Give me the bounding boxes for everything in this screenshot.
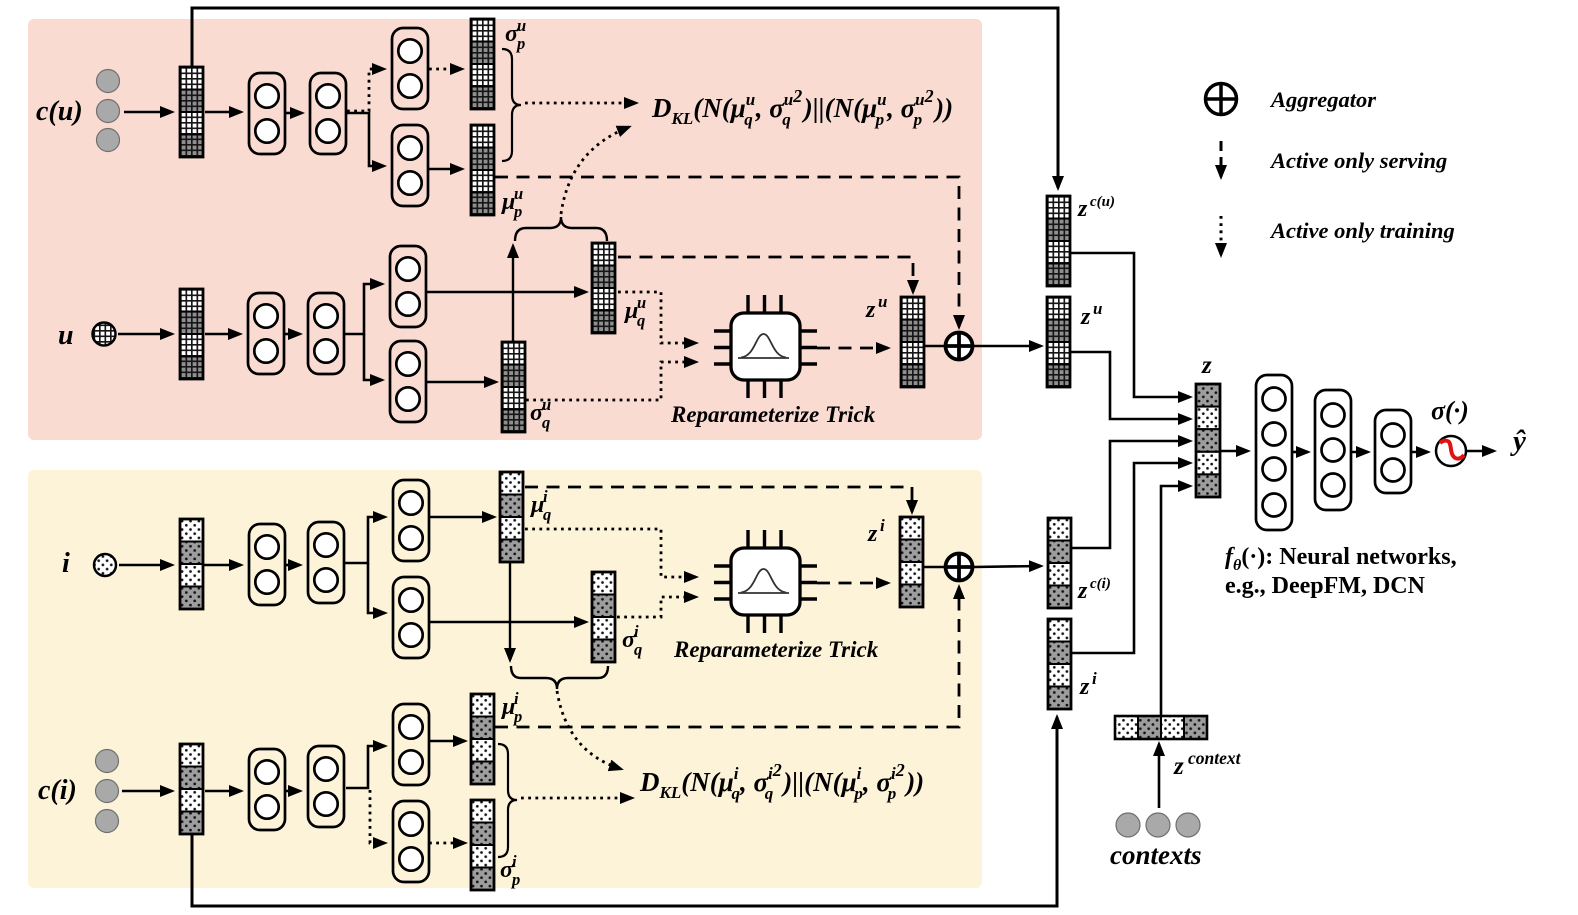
wire u to embedding bbox=[118, 333, 172, 336]
svg-text:z: z bbox=[1173, 753, 1184, 780]
svg-text:p: p bbox=[510, 870, 520, 889]
column sigma_p^u bbox=[471, 19, 494, 109]
wire bbox=[204, 564, 241, 567]
svg-text:Reparameterize Trick: Reparameterize Trick bbox=[673, 637, 879, 662]
column mu_q^u bbox=[592, 243, 615, 333]
item (yellow) region background bbox=[28, 470, 982, 888]
svg-text:i: i bbox=[62, 548, 70, 579]
wire: c(i) embedding bottom to z^i column (serving path) bbox=[192, 717, 1057, 906]
MLP layer box (i #1) bbox=[249, 524, 285, 605]
input contexts circles bbox=[1116, 813, 1140, 837]
svg-text:Reparameterize Trick: Reparameterize Trick bbox=[670, 402, 876, 427]
dashed wire mu_q^u to z^u column (serving) bbox=[618, 257, 913, 292]
wire bbox=[285, 333, 300, 336]
MLP layer box (u #2) bbox=[308, 293, 344, 374]
column sigma_q^i bbox=[592, 572, 615, 662]
wire z^i to z bbox=[1071, 463, 1190, 653]
svg-text:q: q bbox=[637, 311, 645, 330]
wire bbox=[368, 563, 385, 613]
svg-text:u: u bbox=[514, 184, 523, 203]
dotted wire brace to D_KL (user) bbox=[525, 102, 636, 105]
wire sigma head to sigma_q^i column bbox=[429, 621, 586, 624]
input c(i) feature circles bbox=[96, 750, 119, 773]
neural network layer 1 (4 neurons) bbox=[1256, 375, 1292, 530]
dotted wire split to prior sigma head (c(i), training) bbox=[370, 790, 385, 843]
wire split to posterior heads (u) bbox=[345, 284, 382, 334]
embedding column for c(u) bbox=[180, 67, 203, 157]
neural network layer 3 (2 neurons) bbox=[1375, 410, 1411, 493]
dashed wire mu_p^u to user aggregator (serving) bbox=[495, 177, 959, 327]
posterior sigma head box (user) bbox=[390, 341, 426, 422]
column z^u (right) bbox=[1047, 297, 1070, 387]
wire split to prior sigma head (dotted, training) bbox=[347, 69, 384, 111]
aggregator oplus (item) bbox=[946, 554, 973, 581]
wire mu head to mu_q^i column bbox=[429, 516, 494, 519]
wire c(i) to embedding bbox=[122, 790, 172, 793]
neural network layer 2 (3 neurons) bbox=[1315, 390, 1351, 510]
wire c(u) to embedding bbox=[124, 111, 172, 114]
dotted wire sigma_q^u to reparameterize chip (training) bbox=[526, 362, 696, 400]
svg-text:c(u): c(u) bbox=[1090, 194, 1115, 210]
input u hatched circle bbox=[93, 323, 116, 346]
MLP layer box (i #2) bbox=[308, 522, 344, 603]
brace joining mu_p^i and sigma_p^i bbox=[498, 744, 517, 857]
posterior mu head box (user) bbox=[390, 246, 426, 327]
svg-text:u: u bbox=[637, 293, 646, 312]
prior sigma head box (user) bbox=[392, 28, 428, 109]
wire z to neural network bbox=[1220, 450, 1248, 453]
dotted wire sigma_q^i to reparameterize chip (training) bbox=[617, 597, 696, 617]
wire z^u to user aggregator bbox=[924, 345, 946, 348]
wire bbox=[205, 333, 240, 336]
legend dotted arrow (training) bbox=[1220, 216, 1223, 255]
wire split to prior mu head bbox=[347, 113, 384, 166]
aggregator oplus (user) bbox=[946, 333, 973, 360]
prior sigma head box (item) bbox=[393, 801, 429, 882]
embedding column for u bbox=[180, 289, 203, 379]
svg-text:q: q bbox=[634, 640, 642, 659]
column z^c(u) bbox=[1047, 196, 1070, 286]
wire bbox=[1351, 451, 1368, 454]
wire sigmoid to prediction bbox=[1466, 450, 1494, 453]
svg-text:Active only training: Active only training bbox=[1269, 218, 1455, 243]
svg-text:i: i bbox=[880, 516, 885, 535]
column z^u (mid) bbox=[901, 297, 924, 387]
svg-text:q: q bbox=[543, 505, 551, 524]
dotted curve brace to D_KL (item) bbox=[557, 691, 621, 769]
column mu_q^i bbox=[500, 472, 523, 562]
svg-text:p: p bbox=[515, 34, 525, 53]
user (pink) region background bbox=[28, 19, 982, 440]
svg-text:z: z bbox=[865, 297, 876, 323]
sigmoid activation node bbox=[1436, 436, 1466, 466]
svg-text:p: p bbox=[512, 202, 522, 221]
svg-text:u: u bbox=[878, 292, 887, 311]
wire bbox=[1411, 451, 1428, 454]
svg-text:z: z bbox=[1079, 674, 1090, 700]
svg-text:u: u bbox=[517, 16, 526, 35]
brace joining sigma_p^u and mu_p^u bbox=[502, 49, 521, 161]
column sigma_q^u bbox=[502, 342, 525, 432]
input c(u) feature circles bbox=[97, 70, 120, 93]
svg-text:u: u bbox=[542, 395, 551, 414]
svg-text:i: i bbox=[512, 852, 517, 871]
wire z^i to item aggregator bbox=[923, 566, 946, 569]
column sigma_p^i bbox=[471, 800, 494, 890]
prior mu head box (user) bbox=[392, 125, 428, 206]
dashed wire mu_p^i to item aggregator (serving) bbox=[495, 587, 959, 727]
wire to mu_p^u column bbox=[429, 168, 462, 171]
svg-text:context: context bbox=[1188, 748, 1242, 768]
wire sigma head to sigma_q^u column bbox=[426, 381, 496, 384]
MLP layer box (c(i) #2) bbox=[308, 746, 344, 827]
legend aggregator symbol bbox=[1206, 84, 1237, 115]
svg-text:i: i bbox=[514, 689, 519, 708]
dotted wire mu_q^u to reparameterize chip (training) bbox=[618, 292, 696, 343]
brace over mu_q^u and sigma_q^u bbox=[515, 217, 607, 241]
reparameterize trick chip (item) bbox=[714, 530, 817, 633]
svg-text:Active only serving: Active only serving bbox=[1269, 148, 1447, 173]
embedding column for i bbox=[180, 519, 203, 609]
wire split to prior mu head (c(i)) bbox=[346, 746, 385, 788]
column z^i (right) bbox=[1048, 619, 1071, 709]
MLP layer box (c(u) #2) bbox=[310, 73, 346, 154]
wire z^u to z bbox=[1070, 352, 1190, 419]
svg-text:c(i): c(i) bbox=[38, 775, 77, 806]
svg-text:σ(·): σ(·) bbox=[1431, 396, 1469, 425]
column z^c(i) bbox=[1048, 518, 1071, 608]
dashed wire chip to z^i (item) bbox=[817, 582, 888, 585]
MLP layer box (c(i) #1) bbox=[249, 749, 285, 830]
wire bbox=[286, 790, 300, 793]
wire to mu_p^i column bbox=[429, 740, 465, 743]
svg-text:z: z bbox=[1080, 304, 1091, 330]
svg-text:i: i bbox=[1092, 669, 1097, 688]
wire z^c(i) to z bbox=[1071, 441, 1190, 548]
svg-text:i: i bbox=[634, 622, 639, 641]
svg-text:p: p bbox=[512, 707, 522, 726]
wire mu head to mu_q^u column bbox=[426, 291, 586, 294]
wire user aggregator to z^u column (right) bbox=[974, 345, 1041, 348]
wire embedding to MLP layer 1 bbox=[205, 111, 241, 114]
svg-text:u: u bbox=[1093, 299, 1102, 318]
svg-text:c(i): c(i) bbox=[1090, 576, 1111, 592]
wire sigma_q^u up to KL brace bbox=[512, 246, 514, 342]
svg-text:ŷ: ŷ bbox=[1510, 425, 1526, 457]
column mu_p^u bbox=[471, 125, 494, 215]
dashed wire mu_q^i to z^i column (serving) bbox=[525, 487, 912, 512]
svg-text:contexts: contexts bbox=[1110, 840, 1202, 870]
wire bbox=[205, 790, 241, 793]
brace under mu_q^i and sigma_q^i bbox=[511, 666, 608, 689]
posterior sigma head box (item) bbox=[393, 577, 429, 658]
dashed wire chip to z^u (user) bbox=[817, 347, 888, 350]
svg-text:z: z bbox=[1201, 352, 1212, 379]
svg-text:q: q bbox=[542, 413, 550, 432]
svg-text:e.g., DeepFM, DCN: e.g., DeepFM, DCN bbox=[1225, 573, 1426, 599]
dotted wire brace to D_KL (item) bbox=[521, 797, 632, 800]
column z^i (mid) bbox=[900, 517, 923, 607]
wire z^context to z bbox=[1161, 486, 1190, 716]
legend dashed arrow (serving) bbox=[1220, 141, 1223, 177]
wire i to embedding bbox=[119, 564, 172, 567]
svg-text:z: z bbox=[1077, 196, 1088, 222]
reparameterize trick chip (user) bbox=[714, 295, 817, 398]
prior mu head box (item) bbox=[393, 704, 429, 785]
dotted wire to sigma_p^i column bbox=[429, 842, 465, 845]
wire contexts to z^context bbox=[1158, 744, 1161, 808]
dotted wire to sigma_p^u column bbox=[429, 68, 462, 71]
svg-text:c(u): c(u) bbox=[36, 96, 83, 127]
input i dotted circle bbox=[94, 554, 116, 576]
wire split to posterior heads (i) bbox=[345, 517, 385, 563]
column z (concatenated latent) bbox=[1196, 384, 1220, 497]
wire bbox=[364, 334, 382, 380]
svg-text:Aggregator: Aggregator bbox=[1269, 87, 1376, 112]
column mu_p^i bbox=[471, 694, 494, 784]
dotted curve brace to D_KL (user) bbox=[561, 127, 629, 214]
wire bbox=[286, 112, 302, 115]
wire: c(u) embedding top to z^c(u) column (serving path) bbox=[192, 8, 1058, 188]
svg-text:u: u bbox=[58, 320, 74, 351]
MLP layer box (c(u) #1) bbox=[249, 73, 285, 154]
column z^context (horizontal) bbox=[1115, 716, 1207, 739]
posterior mu head box (item) bbox=[393, 480, 429, 561]
svg-text:i: i bbox=[543, 487, 548, 506]
embedding column for c(i) bbox=[180, 744, 203, 834]
wire bbox=[286, 564, 300, 567]
svg-text:z: z bbox=[867, 521, 878, 547]
wire mu_q^i down to KL brace (item) bbox=[509, 563, 511, 660]
MLP layer box (u #1) bbox=[248, 293, 284, 374]
svg-text:z: z bbox=[1077, 578, 1088, 604]
wire bbox=[1292, 451, 1308, 454]
wire item aggregator to z^c(i) column (right) bbox=[974, 566, 1041, 567]
dotted wire mu_q^i to reparameterize chip (training) bbox=[525, 529, 696, 577]
wire z^c(u) to z bbox=[1070, 253, 1190, 397]
svg-text:fθ(·): Neural networks,: fθ(·): Neural networks, bbox=[1225, 544, 1457, 574]
